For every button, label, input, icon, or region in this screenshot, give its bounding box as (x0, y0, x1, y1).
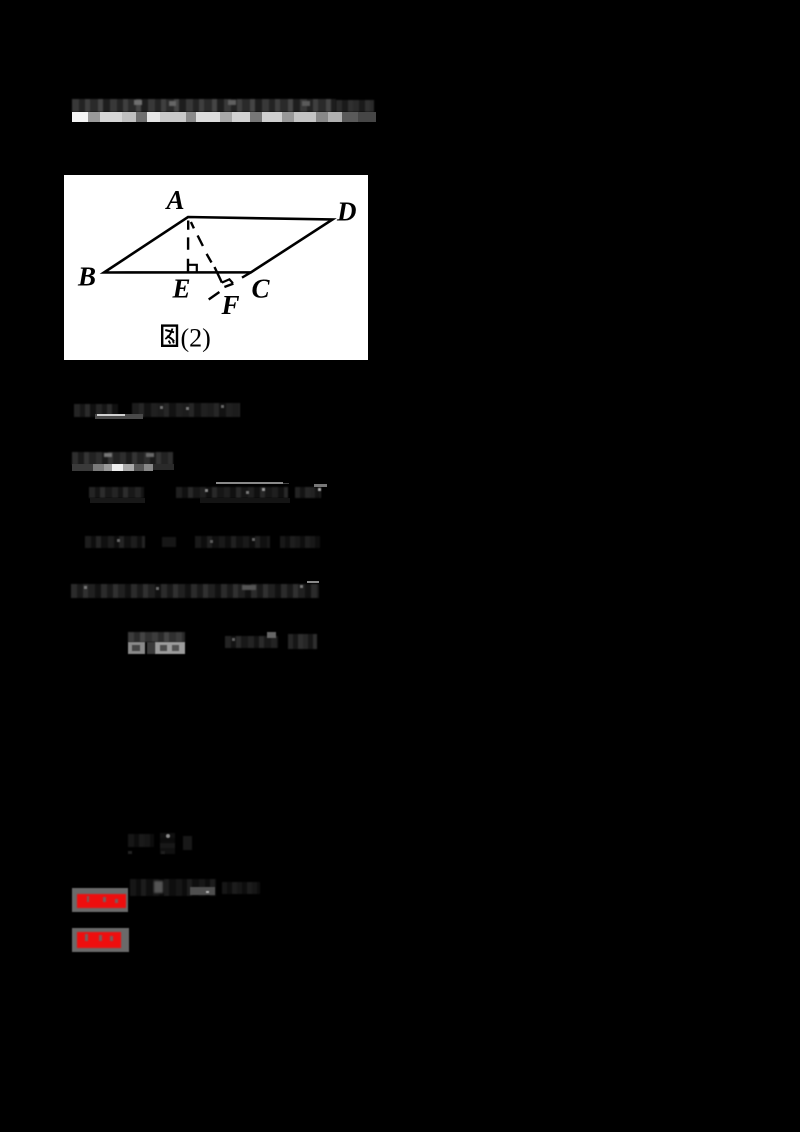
svg-text:B: B (77, 262, 96, 292)
svg-text:D: D (336, 197, 357, 227)
right angle at F (222, 279, 233, 283)
box1 faint text (130, 879, 216, 896)
figure box (64, 175, 368, 360)
dashed AF (191, 222, 222, 283)
line 6 (74, 404, 118, 417)
parallelogram ABCD (104, 217, 333, 273)
right angle at E (188, 265, 197, 272)
svg-text:E: E (172, 274, 191, 304)
dashed CF extension (209, 284, 234, 300)
gray box 1 (72, 888, 128, 912)
svg-text:A: A (165, 185, 185, 215)
red label 1 (77, 894, 126, 909)
line 9 (85, 536, 145, 548)
svg-text:C: C (252, 274, 271, 304)
top line: mottled dark text row (72, 99, 336, 112)
solid extension of DC beyond C (242, 272, 251, 277)
line 11 (128, 632, 185, 642)
equation y833 (128, 834, 154, 847)
svg-text:F: F (221, 290, 240, 320)
red label 2 (77, 932, 121, 948)
top highlight strip (72, 112, 88, 122)
dashed AE (187, 221, 190, 272)
line 7 (72, 452, 173, 465)
tiny specks above (128, 851, 132, 854)
gray box 2 (72, 928, 129, 952)
line 10 (71, 584, 319, 598)
line 8 (216, 482, 283, 484)
svg-text:(2): (2) (181, 324, 211, 353)
caption glyph (drawn) (162, 326, 177, 346)
speckle dots (160, 406, 163, 409)
